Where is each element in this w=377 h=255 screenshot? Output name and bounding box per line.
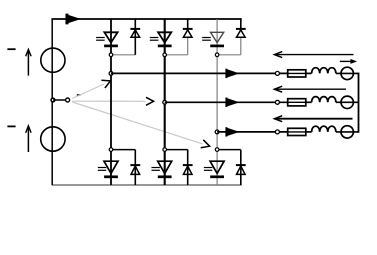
diode D1' cathode bar — [130, 164, 140, 166]
annotation line to lower switch T6 — [72, 102, 202, 144]
wire diode D3 top branch — [240, 19, 242, 30]
diode D2 top cathode bar — [183, 28, 193, 30]
node top leg 2 — [163, 53, 167, 57]
wire R to L phase a — [306, 72, 312, 74]
wire leg 3 upper device branch — [216, 19, 218, 132]
wire bottom connect leg 1 — [111, 149, 135, 151]
wire diode D2' bottom branch — [187, 150, 189, 185]
wire top DC bus — [51, 18, 241, 20]
diode D3' triangle — [237, 166, 246, 174]
transistor T2 gate lines — [150, 37, 159, 39]
annotation line to node A — [72, 100, 145, 102]
source E1 upper DC source — [41, 48, 65, 72]
transistor T3' bottom triangle — [210, 161, 224, 173]
inductor La — [312, 68, 336, 74]
arrow phase current ia — [226, 69, 239, 78]
diode D3' cathode bar — [236, 164, 246, 166]
wire diode D1 top branch — [134, 19, 136, 55]
wire leg 2 upper device branch — [164, 19, 166, 102]
wire leg 2 lower device branch — [164, 102, 166, 185]
wire L to source phase c — [336, 131, 359, 133]
diode D1' triangle — [131, 166, 140, 174]
transistor T3 cathode bar — [210, 45, 224, 48]
resistor Rc — [288, 128, 306, 135]
node top leg 1 — [109, 53, 113, 57]
wire phase a from leg to load — [111, 72, 288, 74]
arrow current at source ea — [340, 60, 352, 62]
transistor T3 gate lines — [202, 37, 211, 39]
transistor T1' bottom triangle — [104, 161, 118, 173]
node phase 3 midpoint — [215, 130, 219, 134]
node bottom leg 1 — [109, 148, 113, 152]
wire R to L phase b — [306, 101, 312, 103]
diode D3 top triangle — [237, 30, 246, 37]
wire diode D1' bottom branch — [134, 150, 136, 185]
transistor T3 top triangle — [211, 32, 224, 42]
wire leg 1 lower device branch — [110, 73, 112, 185]
node DC midpoint junction — [51, 98, 55, 102]
transistor T3' gate lines — [204, 167, 212, 169]
node phase c terminal — [275, 130, 279, 134]
inductor Lb — [312, 97, 336, 103]
transistor T2' bottom triangle — [158, 161, 172, 173]
node phase 1 midpoint — [109, 72, 113, 76]
transistor T1 cathode bar — [104, 45, 118, 48]
diode D1 top triangle — [131, 30, 140, 37]
arrow phase current ib — [226, 98, 239, 107]
wire L to source phase b — [336, 101, 359, 103]
arrow voltage ub — [276, 88, 346, 90]
wire L to source phase a — [336, 72, 359, 74]
wire top connect leg 3 — [217, 54, 241, 56]
arrow lower source voltage — [27, 127, 29, 152]
minus label upper source — [7, 48, 15, 50]
source ec back-EMF — [341, 126, 353, 138]
arrow phase current ic — [226, 127, 239, 136]
node phase b terminal — [275, 100, 279, 104]
diode D1 top cathode bar — [130, 28, 140, 30]
source ea back-EMF — [341, 67, 353, 79]
minus label at terminal 0 — [77, 94, 81, 96]
resistor Rb — [288, 99, 306, 106]
node bottom leg 3 — [215, 148, 219, 152]
arrow voltage ua — [276, 54, 353, 56]
wire diode D3' bottom branch — [240, 150, 242, 185]
diode D3 top cathode bar — [236, 28, 246, 30]
node phase a terminal — [275, 71, 279, 75]
arrow voltage uc — [276, 118, 352, 120]
wire leg 3 lower device branch — [216, 132, 218, 185]
annotation line to upper switch T1 — [72, 84, 104, 99]
wire phase c from leg to load — [217, 131, 288, 133]
node top leg 3 — [215, 53, 219, 57]
wire bottom DC bus — [52, 184, 242, 186]
wire bottom connect leg 2 — [165, 149, 188, 151]
diode D2 top triangle — [183, 30, 192, 37]
wire midpoint stub — [53, 99, 65, 101]
node open terminal 0 — [66, 98, 70, 102]
wire right neutral bus — [358, 73, 360, 133]
wire diode D2 top branch — [187, 19, 189, 30]
wire top connect leg 1 — [111, 54, 135, 56]
wire bottom connect leg 3 — [217, 149, 241, 151]
transistor T2 top triangle — [158, 32, 171, 42]
wire left DC link vertical — [51, 19, 53, 185]
transistor T1' cathode bar — [104, 175, 118, 178]
wire phase b from leg to load — [165, 101, 288, 103]
diode D2' triangle — [183, 166, 192, 174]
node phase 2 midpoint — [163, 100, 167, 104]
transistor T2' cathode bar — [158, 175, 172, 178]
transistor T1 gate lines — [96, 37, 105, 39]
inductor Lc — [312, 126, 336, 132]
diode D2' cathode bar — [183, 164, 193, 166]
transistor T3' cathode bar — [210, 175, 224, 178]
arrow Id current direction on top bus — [66, 14, 81, 24]
wire top connect leg 2 — [165, 54, 188, 56]
arrow upper source voltage — [27, 51, 29, 76]
source eb back-EMF — [341, 96, 353, 108]
resistor Ra — [288, 70, 306, 77]
wire R to L phase c — [306, 131, 312, 133]
transistor T1' gate lines — [98, 167, 106, 169]
transistor T2 cathode bar — [158, 45, 172, 48]
transistor T1 top triangle — [104, 32, 117, 42]
source E2 lower DC source — [41, 127, 65, 151]
node bottom leg 2 — [163, 148, 167, 152]
transistor T2' gate lines — [152, 167, 160, 169]
minus label lower source — [7, 125, 15, 127]
wire leg 1 upper device branch — [110, 19, 112, 73]
